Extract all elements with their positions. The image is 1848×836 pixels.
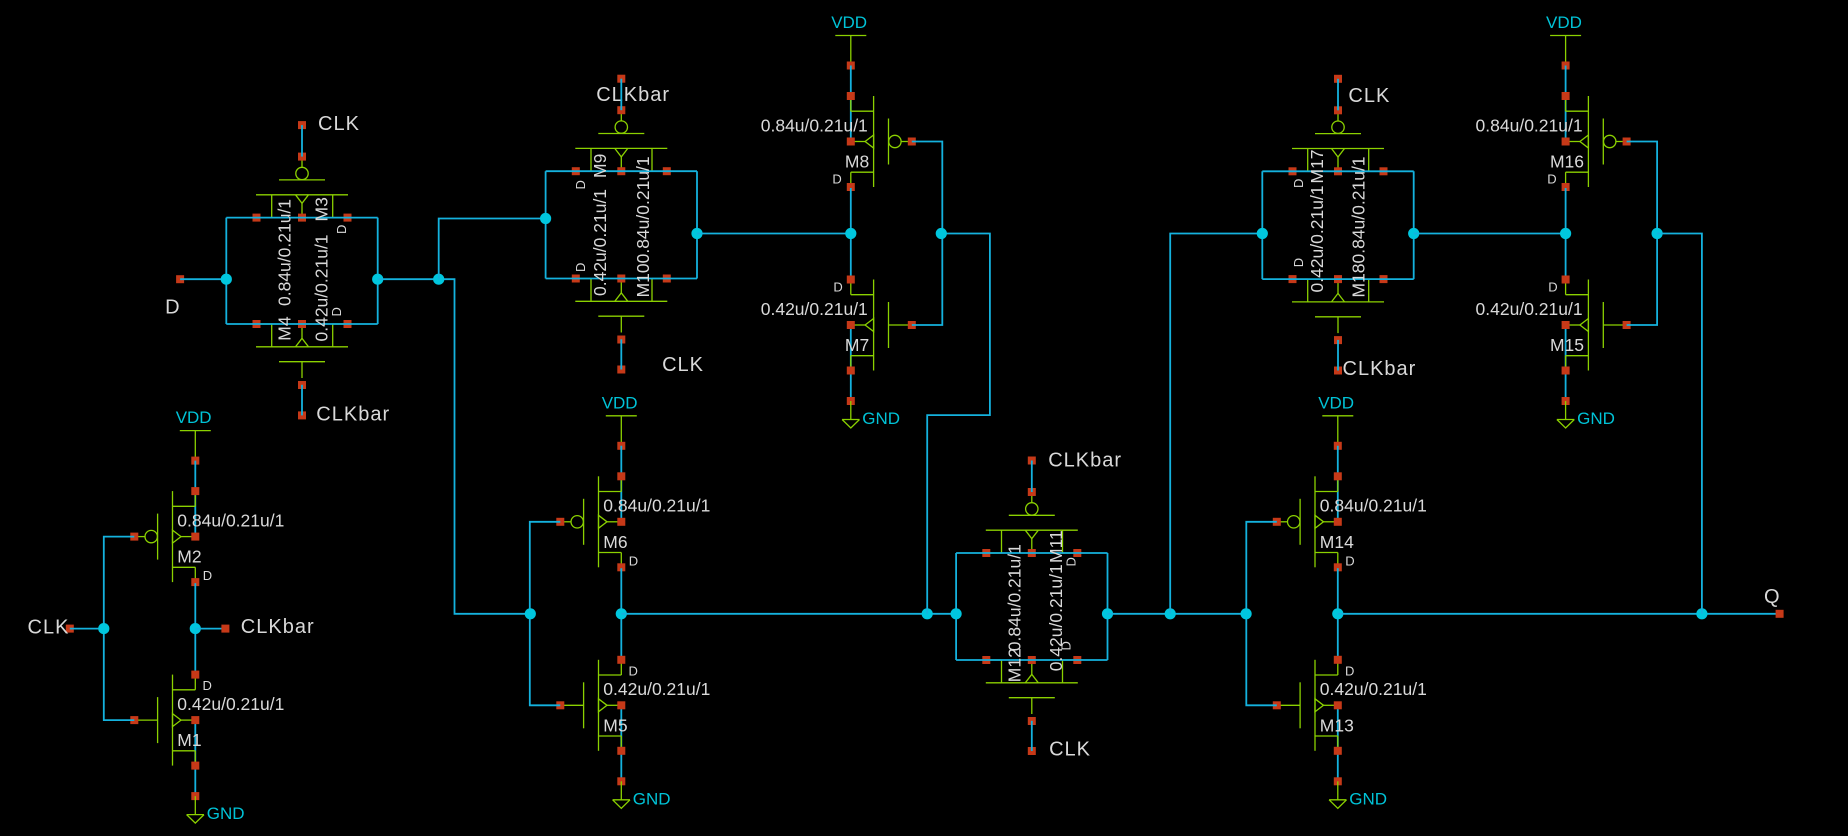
pin D input	[165, 275, 184, 318]
transistor M15 (NMOS, mirrored)	[1562, 276, 1631, 375]
wire keeper branch up	[927, 234, 990, 614]
svg-text:D: D	[203, 568, 212, 583]
node tgate3 output	[1102, 608, 1113, 619]
transistor M7 (NMOS, mirrored)	[847, 276, 916, 375]
svg-text:D: D	[1291, 258, 1306, 267]
svg-text:0.42u/0.21u/1: 0.42u/0.21u/1	[177, 694, 284, 714]
svg-text:D: D	[203, 678, 212, 693]
svg-text:D: D	[1548, 280, 1557, 295]
node keeper2 gate junction	[1652, 228, 1663, 239]
svg-text:VDD: VDD	[1546, 13, 1582, 32]
transistor M18 (NMOS pass, gate down)	[1289, 275, 1388, 344]
GND ground symbol	[1329, 777, 1387, 808]
GND ground symbol	[842, 397, 900, 428]
wire CLKbar label to M18 gate	[1337, 340, 1339, 371]
node tgate4 output	[1408, 228, 1419, 239]
svg-text:Q: Q	[1764, 586, 1781, 608]
node tgate3 input	[951, 608, 962, 619]
wire M13 bulk and source to GND	[1337, 705, 1339, 781]
svg-text:D: D	[833, 280, 842, 295]
pin CLKbar at M11 gate	[1028, 450, 1122, 472]
wire M6 drain to output node	[620, 568, 622, 659]
transistor M17 (PMOS pass, gate up)	[1289, 106, 1388, 175]
wire VDD to M16 source and bulk	[1565, 66, 1567, 142]
svg-text:CLK: CLK	[1348, 85, 1390, 107]
wire tgate1 loop	[226, 217, 377, 219]
svg-text:M16: M16	[1550, 152, 1584, 172]
node keeper2 output	[1560, 228, 1571, 239]
wire CLKbar label to M11 gate	[1031, 461, 1033, 493]
wire CLKbar label to M9 gate	[620, 79, 622, 111]
VDD supply symbol	[176, 408, 212, 465]
transistor M10 (NMOS pass, gate down)	[572, 275, 671, 344]
svg-text:M1: M1	[177, 730, 201, 750]
svg-text:0.42u/0.21u/1: 0.42u/0.21u/1	[761, 299, 868, 319]
wire M1 bulk and source to GND	[194, 720, 196, 796]
wire CLK label to M12 gate	[1031, 721, 1033, 751]
pin CLK at M12 gate	[1028, 738, 1091, 760]
svg-text:0.42u/0.21u/1: 0.42u/0.21u/1	[1476, 299, 1583, 319]
pin CLK at M3 gate	[298, 113, 360, 135]
wire VDD to M14 source and bulk	[1337, 446, 1339, 522]
transistor M4 (NMOS pass, gate down)	[253, 320, 352, 389]
wire slave branch up to tgate4	[1170, 234, 1262, 614]
svg-text:M2: M2	[177, 547, 201, 567]
svg-text:M5: M5	[603, 715, 627, 735]
svg-text:0.84u/0.21u/1: 0.84u/0.21u/1	[275, 199, 295, 306]
svg-text:0.84u/0.21u/1: 0.84u/0.21u/1	[177, 510, 284, 530]
wire inverter input gates	[530, 522, 561, 706]
wire tgate3 loop	[956, 552, 1107, 554]
wire inverter input gates	[912, 142, 943, 326]
transistor M5 (NMOS)	[556, 656, 625, 755]
svg-text:D: D	[573, 263, 588, 272]
svg-text:D: D	[329, 307, 344, 316]
svg-text:0.84u/0.21u/1: 0.84u/0.21u/1	[1004, 544, 1024, 651]
VDD supply symbol	[831, 13, 867, 70]
svg-text:M3: M3	[311, 197, 331, 221]
svg-text:0.84u/0.21u/1: 0.84u/0.21u/1	[761, 115, 868, 135]
svg-text:GND: GND	[1577, 409, 1615, 428]
svg-text:0.84u/0.21u/1: 0.84u/0.21u/1	[1348, 156, 1368, 263]
svg-text:M9: M9	[590, 154, 610, 178]
svg-text:GND: GND	[207, 804, 245, 823]
svg-text:CLK: CLK	[318, 113, 360, 135]
svg-text:GND: GND	[862, 409, 900, 428]
wire M7 bulk and source to GND	[850, 325, 852, 401]
wire tgate2 loop	[546, 170, 697, 172]
node keeper inverter output	[845, 228, 856, 239]
svg-text:0.42u/0.21u/1: 0.42u/0.21u/1	[1046, 564, 1066, 671]
transistor M8 (PMOS, mirrored)	[847, 92, 916, 191]
node inverter2 input junction	[525, 608, 536, 619]
svg-text:VDD: VDD	[831, 13, 867, 32]
svg-text:D: D	[832, 172, 841, 187]
wire CLK label to M10 gate	[620, 339, 622, 369]
wire CLKbar label to M4 gate	[301, 385, 303, 416]
svg-text:0.84u/0.21u/1: 0.84u/0.21u/1	[603, 496, 710, 516]
wire tgate1 output to master node	[378, 279, 531, 614]
svg-text:D: D	[1291, 179, 1306, 188]
wire inverter input gates	[1246, 522, 1277, 706]
svg-text:D: D	[1064, 557, 1079, 566]
svg-text:CLKbar: CLKbar	[596, 84, 670, 106]
pin CLKbar at M18 gate	[1334, 358, 1416, 380]
svg-text:0.42u/0.21u/1: 0.42u/0.21u/1	[311, 234, 331, 341]
svg-text:0.42u/0.21u/1: 0.42u/0.21u/1	[603, 679, 710, 699]
pin CLKbar at M9 gate	[596, 75, 670, 106]
transistor M2 (PMOS)	[130, 487, 199, 586]
GND ground symbol	[1557, 397, 1615, 428]
wire tgate2 output to keeper inverter	[697, 233, 851, 235]
wire CLK label to M17 gate	[1337, 79, 1339, 111]
node CLK junction	[98, 623, 109, 634]
wire VDD to M2 source and bulk	[194, 461, 196, 537]
svg-text:CLK: CLK	[1049, 738, 1091, 760]
node tgate2 output	[691, 228, 702, 239]
svg-text:0.42u/0.21u/1: 0.42u/0.21u/1	[1307, 185, 1327, 292]
wire inverter3 output to Q	[1338, 613, 1780, 615]
transistor M13 (NMOS)	[1273, 656, 1342, 755]
node tgate1 output	[372, 274, 383, 285]
node tgate1 input	[221, 274, 232, 285]
svg-text:CLK: CLK	[662, 354, 704, 376]
svg-text:M17: M17	[1307, 149, 1327, 183]
svg-text:0.84u/0.21u/1: 0.84u/0.21u/1	[633, 156, 653, 263]
svg-text:CLKbar: CLKbar	[316, 404, 390, 426]
transistor M3 (PMOS pass, gate up)	[253, 153, 352, 222]
svg-text:D: D	[165, 297, 180, 319]
pin Q output	[1764, 586, 1784, 618]
GND ground symbol	[613, 777, 671, 808]
svg-text:M14: M14	[1320, 532, 1354, 552]
pin CLK at M10 gate	[617, 354, 704, 376]
transistor M16 (PMOS, mirrored)	[1562, 92, 1631, 191]
wire keeper2 gate to Q node	[1657, 234, 1702, 614]
pin CLK input	[28, 617, 74, 639]
wire inverter input gates	[104, 537, 135, 721]
wire inverter2 output to slave	[621, 613, 956, 615]
svg-text:M12: M12	[1004, 648, 1024, 682]
pin CLKbar output	[221, 616, 314, 638]
VDD supply symbol	[602, 393, 638, 450]
svg-text:0.42u/0.21u/1: 0.42u/0.21u/1	[1320, 679, 1427, 699]
svg-text:D: D	[1345, 553, 1354, 568]
pin CLKbar at M4 gate	[298, 404, 390, 426]
svg-text:M4: M4	[275, 316, 295, 341]
node inverter3 input junction	[1241, 608, 1252, 619]
svg-text:GND: GND	[633, 789, 671, 808]
wire M14 drain to output node	[1337, 568, 1339, 659]
GND ground symbol	[187, 792, 245, 823]
node master branch	[433, 274, 444, 285]
wire M2 drain to output node	[194, 583, 196, 674]
wire D input	[180, 278, 226, 280]
svg-text:D: D	[1058, 641, 1073, 650]
wire tgate3 output to slave node	[1108, 613, 1247, 615]
svg-text:0.84u/0.21u/1: 0.84u/0.21u/1	[1320, 496, 1427, 516]
svg-text:M8: M8	[845, 152, 869, 172]
transistor M14 (PMOS)	[1273, 472, 1342, 571]
transistor M9 (PMOS pass, gate up)	[572, 106, 671, 175]
transistor M11 (PMOS pass, gate up)	[982, 488, 1081, 557]
node inverter3 output junction	[1332, 608, 1343, 619]
svg-text:GND: GND	[1349, 789, 1387, 808]
wire tgate4 loop	[1262, 170, 1413, 172]
wire M5 bulk and source to GND	[620, 705, 622, 781]
wire tgate4 output to slave keeper	[1414, 233, 1566, 235]
wire branch up to tgate2	[439, 219, 546, 280]
wire M8 drain to output node	[850, 188, 852, 279]
svg-text:M7: M7	[845, 335, 869, 355]
svg-text:VDD: VDD	[176, 408, 212, 427]
node keeper inverter gate junction	[936, 228, 947, 239]
svg-text:D: D	[573, 180, 588, 189]
transistor M6 (PMOS)	[556, 472, 625, 571]
node Q keeper junction	[1696, 608, 1707, 619]
VDD supply symbol	[1546, 13, 1582, 70]
svg-text:0.84u/0.21u/1: 0.84u/0.21u/1	[1476, 115, 1583, 135]
node keeper branch junction	[922, 608, 933, 619]
wire VDD to M6 source and bulk	[620, 446, 622, 522]
node slave branch to tgate4	[1165, 608, 1176, 619]
transistor M1 (NMOS)	[130, 671, 199, 770]
svg-text:M6: M6	[603, 532, 627, 552]
svg-text:D: D	[334, 225, 349, 234]
node tgate4 input	[1257, 228, 1268, 239]
svg-text:D: D	[1345, 663, 1354, 678]
pin CLK at M17 gate	[1334, 75, 1390, 107]
svg-text:M13: M13	[1320, 715, 1354, 735]
transistor M12 (NMOS pass, gate down)	[982, 656, 1081, 725]
svg-text:VDD: VDD	[602, 393, 638, 412]
VDD supply symbol	[1318, 393, 1354, 450]
wire CLK pin to inverter input	[70, 628, 104, 630]
wire inverter input gates	[1627, 142, 1658, 326]
svg-text:M10: M10	[633, 263, 653, 297]
svg-text:D: D	[1547, 172, 1556, 187]
node tgate2 input	[540, 213, 551, 224]
svg-text:CLKbar: CLKbar	[241, 616, 315, 638]
svg-text:CLK: CLK	[28, 617, 70, 639]
wire M16 drain to output node	[1565, 188, 1567, 279]
svg-text:0.42u/0.21u/1: 0.42u/0.21u/1	[590, 189, 610, 296]
wire VDD to M8 source and bulk	[850, 66, 852, 142]
svg-text:M18: M18	[1348, 263, 1368, 297]
wire CLK label to M3 gate	[301, 125, 303, 157]
svg-text:VDD: VDD	[1318, 393, 1354, 412]
wire output to CLKbar label	[195, 628, 225, 630]
svg-text:M15: M15	[1550, 335, 1584, 355]
svg-text:D: D	[629, 553, 638, 568]
node CLKbar output junction	[190, 623, 201, 634]
svg-text:CLKbar: CLKbar	[1343, 358, 1417, 380]
wire M15 bulk and source to GND	[1565, 325, 1567, 401]
node inverter2 output junction	[616, 608, 627, 619]
svg-text:CLKbar: CLKbar	[1048, 450, 1122, 472]
svg-text:D: D	[629, 663, 638, 678]
